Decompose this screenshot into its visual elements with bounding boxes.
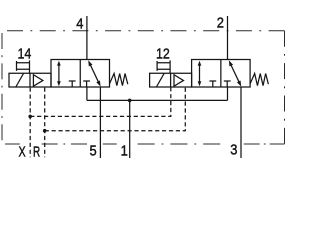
supply drop V1: [86, 87, 88, 100]
pilot port stub V2: [157, 60, 170, 73]
enclosure border right: [284, 31, 286, 144]
pneumatic schematic: dual 3/2-way solenoid pilot valve manifold: [0, 0, 288, 176]
blocked port T (rest position) V1: [83, 81, 90, 87]
supply drop V2: [227, 87, 229, 100]
port line top V2: [227, 16, 229, 60]
pilot line X branch to V2: [30, 87, 171, 116]
enclosure border bottom (segments with label gaps): [5, 143, 20, 145]
pilot line R branch to V2: [45, 87, 186, 130]
blocked port T (rest position) V2: [224, 81, 231, 87]
port line top V1: [86, 16, 88, 60]
pilot triangle V2: [174, 75, 184, 87]
blocked port T (actuated position) V2: [209, 81, 216, 87]
svg-text:5: 5: [90, 143, 97, 160]
flow arrow (actuated position) V2: [199, 64, 201, 84]
valve body V2: [192, 60, 251, 88]
valve position divider V1: [79, 60, 81, 88]
svg-text:14: 14: [18, 45, 32, 62]
left pilot valve V1: [9, 16, 128, 158]
pilot line R vertical: [44, 88, 46, 158]
port 1 line: [129, 100, 131, 158]
junction node X: [28, 115, 32, 119]
return spring V2: [250, 74, 268, 86]
valve body V1: [51, 60, 110, 88]
svg-text:3: 3: [230, 141, 237, 158]
svg-text:X: X: [19, 143, 26, 160]
diagonal flow arrow (rest position) V2: [230, 63, 240, 84]
solenoid/pilot divider V2: [170, 73, 172, 87]
diagonal flow arrow (rest position) V1: [90, 63, 100, 84]
solenoid/pilot divider V1: [29, 73, 31, 87]
pilot line X vertical: [29, 88, 31, 158]
valve position divider V2: [220, 60, 222, 88]
junction node on rail: [128, 99, 132, 103]
exhaust port line V2: [240, 87, 242, 158]
svg-text:4: 4: [76, 16, 83, 33]
right pilot valve V2: [150, 16, 269, 158]
enclosure border top: [7, 30, 285, 32]
solenoid coil slash V2: [156, 73, 164, 87]
blocked port T (actuated position) V1: [69, 81, 76, 87]
exhaust port line V1: [99, 87, 101, 158]
enclosure border left: [1, 33, 3, 140]
return spring V1: [110, 74, 128, 86]
svg-text:12: 12: [156, 45, 170, 62]
solenoid pilot block V1 outline: [9, 73, 51, 87]
pilot port stub V1: [17, 60, 30, 73]
flow arrow (actuated position) V1: [58, 64, 60, 84]
svg-text:2: 2: [217, 14, 224, 31]
svg-text:R: R: [33, 143, 40, 160]
junction node R: [43, 129, 47, 133]
supply rail (port 1): [87, 99, 228, 101]
pilot triangle V1: [33, 75, 43, 87]
svg-text:1: 1: [121, 143, 128, 160]
solenoid pilot block V2 outline: [150, 73, 192, 87]
solenoid coil slash V1: [16, 73, 24, 87]
